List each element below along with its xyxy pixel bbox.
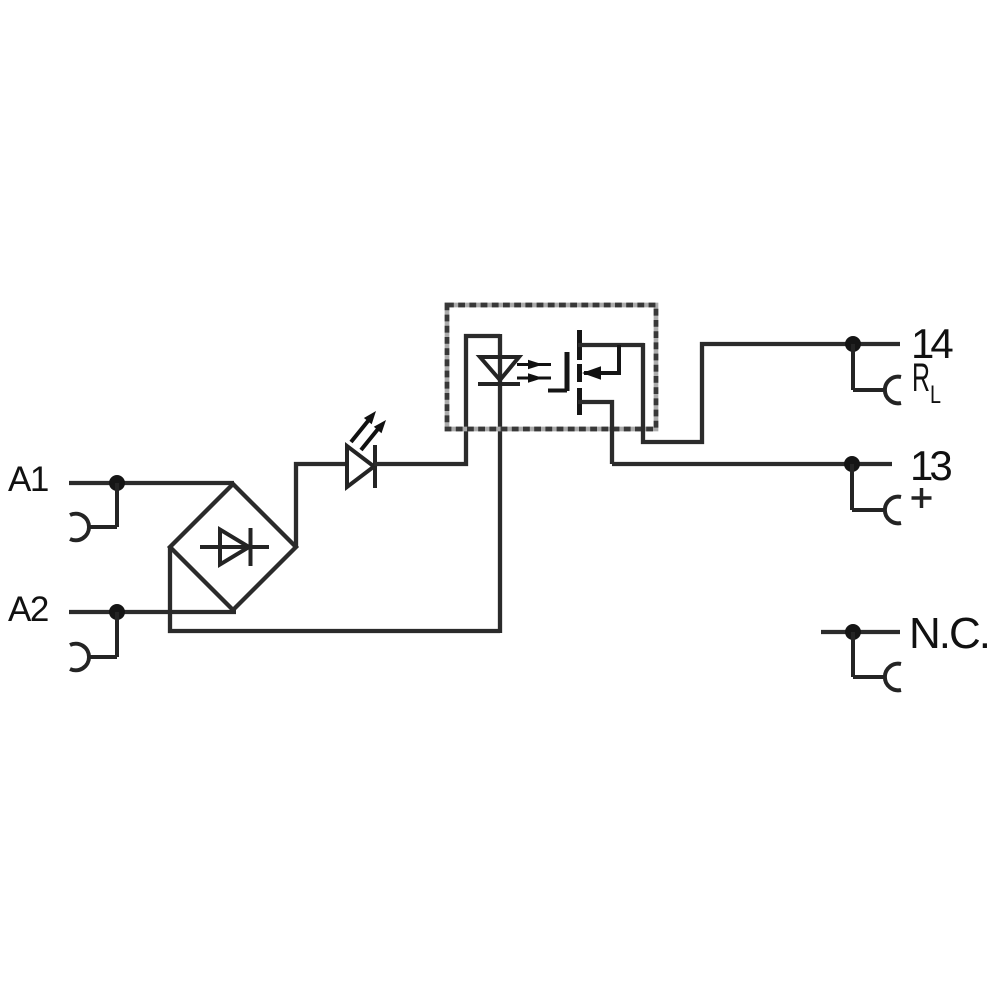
- MOSFET Q1 drain lead: [578, 343, 644, 347]
- terminal clamp N.C.: [853, 632, 901, 690]
- MOSFET Q1 channel segments: [577, 330, 582, 415]
- node A2 junction dot: [109, 604, 125, 620]
- polarity label plus: [912, 488, 932, 508]
- svg-text:A2: A2: [8, 590, 48, 629]
- terminal clamp A1: [70, 483, 117, 540]
- MOSFET Q1 body connection with arrow: [584, 345, 619, 373]
- MOSFET Q1 gate bar: [565, 352, 570, 391]
- optocoupler U1 emitter diode: [478, 357, 520, 384]
- node terminal 13 junction dot: [844, 456, 860, 472]
- svg-text:A1: A1: [8, 460, 48, 499]
- wire bridge minus output: left vertex down then right to photodiode bottom: [170, 547, 500, 631]
- terminal clamp A2: [70, 612, 117, 670]
- terminal clamp 14: [853, 344, 901, 403]
- MOSFET Q1 gate lead: [548, 389, 567, 393]
- wire N.C. stub: [821, 630, 900, 634]
- wire bridge plus output: right vertex up then right to LED: [296, 464, 347, 547]
- wire A2 to bridge bottom vertex: [69, 610, 236, 614]
- terminal clamp 13: [852, 464, 901, 523]
- bridge rectifier B1 internal diode: [200, 528, 269, 566]
- svg-text:R: R: [912, 356, 930, 400]
- LED D1 light emission arrows: [351, 421, 378, 450]
- node terminal 14 junction dot: [845, 336, 861, 352]
- svg-text:N.C.: N.C.: [909, 609, 989, 658]
- bridge rectifier B1 diamond: [170, 484, 296, 610]
- node A1 junction dot: [109, 475, 125, 491]
- wire LED cathode to optocoupler: [374, 336, 500, 464]
- optocoupler U1 dashed isolation box: [447, 305, 656, 429]
- wire photodiode cathode vertical: [498, 334, 502, 633]
- svg-text:13: 13: [910, 442, 951, 489]
- MOSFET Q1 source lead: [578, 402, 612, 464]
- LED D1: [347, 445, 375, 488]
- node N.C. junction dot: [845, 624, 861, 640]
- wire A1 to bridge top vertex: [69, 481, 234, 485]
- wire drain to terminal 14 (staircase): [643, 343, 900, 442]
- svg-text:L: L: [930, 381, 941, 409]
- optocoupler U1 light coupling arrows: [517, 365, 551, 379]
- wire source to terminal 13: [612, 462, 892, 466]
